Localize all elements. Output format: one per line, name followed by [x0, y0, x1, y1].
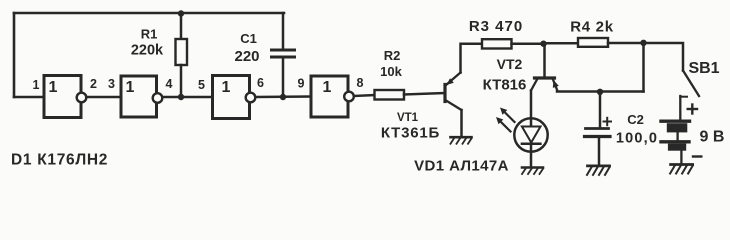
label VD1 AL147A: [414, 157, 509, 174]
pin 3: [108, 77, 115, 91]
value 220k: [131, 43, 164, 59]
resistor R3: [482, 39, 512, 48]
label D1 K176LN2: [11, 152, 108, 169]
pin 5: [198, 78, 205, 92]
pin 1: [33, 78, 40, 92]
inverter D1.4: [311, 76, 354, 117]
resistor R4: [544, 38, 644, 47]
svg-text:D1 К176ЛН2: D1 К176ЛН2: [11, 152, 108, 169]
svg-text:1: 1: [126, 79, 135, 96]
wire D1.3 out to D1.4 in: [256, 95, 312, 98]
value KT361B: [381, 125, 440, 142]
switch SB1 blade: [683, 71, 699, 97]
wire R3 to node: [512, 42, 544, 45]
wire R4 node down to emitter line: [642, 43, 645, 92]
svg-text:R4 2k: R4 2k: [570, 19, 614, 36]
wire R2 to VT1 base: [404, 93, 444, 95]
LED light arrow 2: [496, 117, 511, 132]
node C1 bottom junction: [280, 94, 286, 100]
node R1 bottom junction: [178, 94, 184, 100]
node VT2 base junction: [540, 41, 546, 47]
wire D1.2 out to D1.3 in: [163, 96, 213, 99]
battery GB1 9V: [661, 121, 690, 163]
node R4 right junction: [640, 40, 646, 46]
ground LED: [522, 168, 543, 175]
label VT2: [497, 56, 523, 72]
wire top feedback rail: [14, 12, 284, 15]
svg-text:C2: C2: [627, 112, 644, 127]
label R3 470: [469, 18, 523, 35]
pin 6: [257, 76, 264, 90]
inverter D1.1: [44, 76, 86, 118]
svg-text:6: 6: [257, 76, 264, 90]
label R2: [384, 48, 401, 63]
svg-text:9: 9: [298, 77, 305, 91]
switch lower contact / battery top lead: [680, 96, 687, 121]
LED VD1: [514, 118, 547, 167]
pin 2: [90, 77, 97, 91]
battery plus sign: [688, 105, 697, 114]
wire left vertical feedback: [13, 13, 16, 97]
svg-text:1: 1: [222, 79, 231, 96]
svg-text:SB1: SB1: [688, 60, 719, 77]
svg-text:КТ816: КТ816: [483, 77, 527, 94]
svg-text:КТ361Б: КТ361Б: [381, 125, 440, 142]
svg-text:1: 1: [49, 79, 58, 96]
ground VT1 collector: [451, 137, 472, 144]
svg-text:VT2: VT2: [497, 56, 523, 72]
value 10k: [380, 64, 402, 79]
value 100,0: [616, 131, 658, 147]
battery minus sign: [693, 155, 701, 157]
resistor R2: [375, 90, 405, 100]
transistor VT1: [445, 73, 462, 111]
svg-text:220k: 220k: [131, 43, 164, 59]
label C2: [627, 112, 644, 127]
label 9 V: [700, 129, 725, 146]
C2 plus sign: [604, 118, 612, 125]
capacitor C1: [272, 13, 295, 97]
wire node down to VT2 base: [543, 44, 546, 77]
label SB1: [688, 60, 719, 77]
svg-text:5: 5: [198, 78, 205, 92]
svg-text:100,0: 100,0: [616, 131, 658, 147]
svg-text:1: 1: [33, 78, 40, 92]
svg-text:4: 4: [166, 77, 173, 91]
svg-text:2: 2: [90, 77, 97, 91]
pin 8: [357, 76, 364, 90]
wire to switch SB1: [644, 43, 684, 71]
svg-text:3: 3: [108, 77, 115, 91]
svg-text:220: 220: [234, 48, 259, 65]
inverter D1.2: [121, 76, 162, 117]
wire VT1 emitter up to R3: [461, 44, 483, 73]
label C1: [240, 31, 257, 46]
svg-text:8: 8: [357, 76, 364, 90]
wire VT2 emitter to C2/R4: [557, 90, 644, 93]
label R4 2k: [570, 19, 614, 36]
label R1: [141, 27, 158, 42]
svg-text:R3 470: R3 470: [469, 18, 523, 35]
svg-text:9 В: 9 В: [700, 129, 725, 146]
node C2 junction: [597, 89, 603, 95]
svg-text:VT1: VT1: [397, 112, 419, 124]
wire D1.1 out to D1.2 in: [87, 96, 122, 99]
inverter D1.3: [213, 76, 256, 119]
wire VT1 collector down: [460, 110, 463, 137]
resistor R1: [176, 13, 188, 97]
LED light arrow 1: [500, 108, 515, 123]
pin 9: [298, 77, 305, 91]
svg-text:R1: R1: [141, 27, 158, 42]
label VT1: [397, 112, 419, 124]
wire D1.4 out to R2: [354, 95, 375, 96]
ground battery: [670, 165, 693, 174]
svg-text:VD1 АЛ147А: VD1 АЛ147А: [414, 157, 509, 174]
pin 4: [166, 77, 173, 91]
svg-text:10k: 10k: [380, 64, 402, 79]
value KT816: [483, 77, 527, 94]
ground C2: [587, 166, 610, 175]
node R1 top junction: [178, 10, 184, 16]
wire VT2 collector down to LED: [530, 91, 533, 127]
svg-text:C1: C1: [240, 31, 257, 46]
value 220: [234, 48, 259, 65]
wire input to gate D1.1: [14, 96, 44, 99]
svg-text:R2: R2: [384, 48, 401, 63]
svg-text:1: 1: [323, 79, 332, 96]
capacitor C2: [585, 92, 611, 165]
transistor VT2: [531, 78, 559, 91]
